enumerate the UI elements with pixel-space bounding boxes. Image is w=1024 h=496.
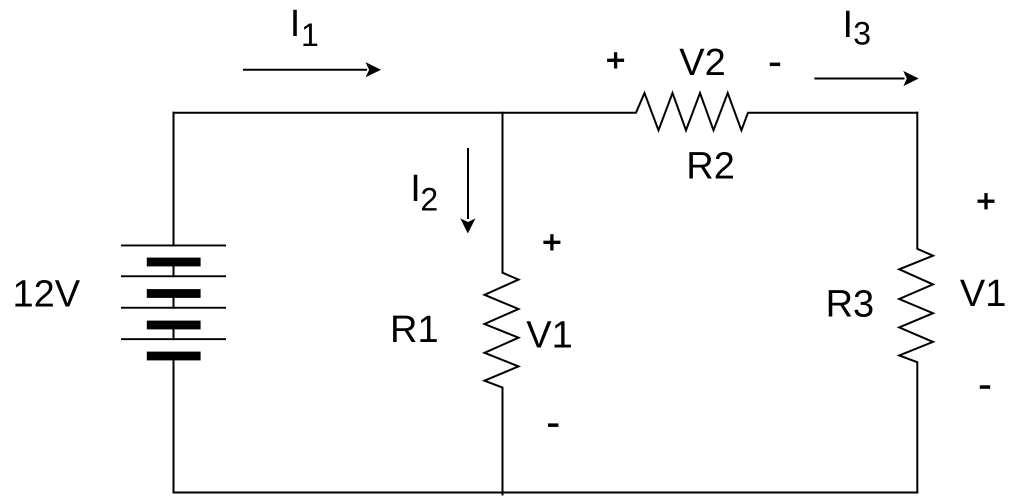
svg-text:V1: V1 — [960, 273, 1006, 315]
svg-text:I: I — [410, 168, 421, 210]
svg-text:I: I — [290, 3, 301, 45]
svg-text:V2: V2 — [679, 42, 725, 84]
svg-text:R1: R1 — [390, 309, 439, 351]
svg-text:2: 2 — [420, 181, 438, 217]
svg-text:1: 1 — [301, 17, 319, 53]
svg-text:V1: V1 — [526, 315, 572, 357]
svg-text:I: I — [843, 4, 854, 46]
svg-text:12V: 12V — [12, 274, 80, 316]
svg-text:3: 3 — [853, 16, 871, 52]
svg-text:R2: R2 — [686, 145, 735, 187]
svg-text:R3: R3 — [826, 284, 875, 326]
